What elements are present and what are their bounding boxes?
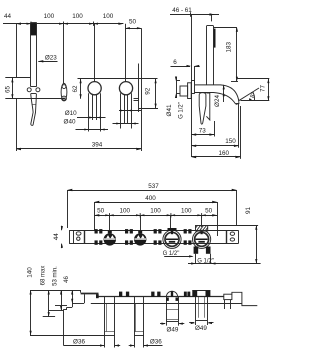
svg-text:183: 183 (226, 42, 233, 53)
svg-text:160: 160 (218, 150, 229, 157)
svg-text:400: 400 (145, 195, 156, 202)
svg-text:Ø23: Ø23 (45, 55, 57, 62)
svg-text:100: 100 (120, 208, 131, 215)
svg-text:77: 77 (260, 85, 267, 93)
svg-text:44: 44 (4, 13, 12, 20)
svg-text:50: 50 (205, 208, 213, 215)
svg-text:Ø24: Ø24 (214, 95, 221, 107)
svg-text:100: 100 (150, 208, 161, 215)
svg-text:Ø10: Ø10 (65, 110, 77, 117)
svg-text:100: 100 (72, 13, 83, 20)
svg-text:150: 150 (225, 138, 236, 145)
svg-text:Ø49: Ø49 (166, 327, 178, 334)
svg-text:62: 62 (72, 85, 79, 93)
svg-text:73: 73 (199, 128, 207, 135)
svg-text:140: 140 (27, 267, 34, 278)
svg-text:92: 92 (145, 87, 152, 95)
svg-text:50: 50 (97, 208, 105, 215)
svg-text:Ø49: Ø49 (195, 325, 207, 332)
svg-text:Ø40: Ø40 (64, 118, 76, 125)
svg-text:Ø41: Ø41 (166, 104, 173, 116)
svg-text:Ø36: Ø36 (150, 339, 162, 346)
svg-text:50: 50 (129, 19, 137, 26)
svg-text:100: 100 (181, 208, 192, 215)
svg-text:537: 537 (148, 183, 159, 190)
svg-text:68 max: 68 max (40, 266, 46, 286)
svg-text:91: 91 (245, 207, 252, 215)
svg-text:394: 394 (92, 142, 103, 149)
svg-text:G 1/2": G 1/2" (179, 102, 185, 119)
svg-text:G 1/2": G 1/2" (163, 251, 180, 257)
svg-text:G 1/2": G 1/2" (197, 258, 214, 264)
svg-text:53 min.: 53 min. (53, 266, 59, 286)
svg-text:44: 44 (53, 233, 60, 241)
svg-text:46: 46 (64, 276, 70, 283)
svg-text:100: 100 (103, 13, 114, 20)
svg-text:46 - 61: 46 - 61 (172, 7, 192, 14)
svg-text:100: 100 (44, 13, 55, 20)
svg-text:6: 6 (173, 59, 177, 66)
svg-text:Ø36: Ø36 (73, 339, 85, 346)
svg-text:65: 65 (5, 86, 12, 94)
